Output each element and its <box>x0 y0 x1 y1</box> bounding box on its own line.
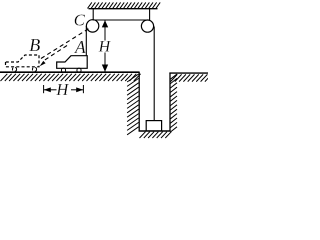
svg-text:C: C <box>74 10 86 29</box>
cart A <box>57 56 87 73</box>
rope between pulleys <box>93 19 148 21</box>
right ground hatching <box>171 74 212 81</box>
pulley U2 support <box>149 9 151 26</box>
pulley U2 <box>141 20 153 32</box>
pit left wall hatching <box>127 74 139 135</box>
ceiling <box>88 2 161 8</box>
weight block in pit <box>146 121 161 131</box>
rope from pulley C down to cart A <box>85 26 87 56</box>
pit right wall hatching <box>170 74 177 132</box>
svg-text:B: B <box>29 35 40 55</box>
right ground line <box>169 72 208 74</box>
vertical dimension H line <box>102 20 108 71</box>
svg-text:H: H <box>98 38 112 55</box>
horizontal dimension H <box>44 85 84 93</box>
svg-text:A: A <box>74 37 86 57</box>
left ground hatching <box>1 74 141 81</box>
pit left wall <box>138 72 140 132</box>
pit bottom hatching <box>140 132 172 138</box>
cart B (dashed, previous position) <box>6 55 40 71</box>
pulley C <box>86 20 98 32</box>
dashed direction line with arrow toward B <box>40 46 67 67</box>
pulley C support <box>92 9 94 26</box>
svg-text:H: H <box>55 80 69 99</box>
dashed rope B to pulley C <box>41 29 89 59</box>
left ground line <box>0 71 139 73</box>
rope from pulley U2 down to weight <box>153 27 155 121</box>
pit bottom <box>139 130 171 132</box>
pit right wall <box>169 73 171 131</box>
